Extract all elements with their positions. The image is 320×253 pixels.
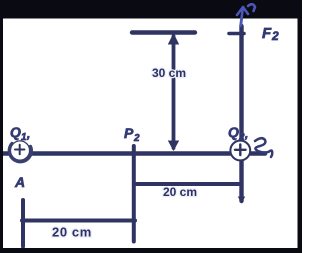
svg-text:2: 2 — [238, 132, 245, 143]
svg-text:F: F — [262, 25, 272, 42]
svg-text:30 cm: 30 cm — [152, 66, 186, 80]
svg-text:P: P — [124, 125, 134, 141]
svg-text:2: 2 — [271, 29, 279, 43]
svg-text:20 cm: 20 cm — [52, 225, 92, 240]
svg-text:,: , — [26, 127, 30, 141]
svg-text:2: 2 — [133, 133, 140, 144]
svg-text:,: , — [244, 127, 248, 141]
svg-text:A: A — [14, 174, 25, 190]
svg-text:Q: Q — [10, 124, 21, 140]
svg-text:20 cm: 20 cm — [163, 185, 197, 199]
svg-text:Q: Q — [228, 124, 239, 140]
